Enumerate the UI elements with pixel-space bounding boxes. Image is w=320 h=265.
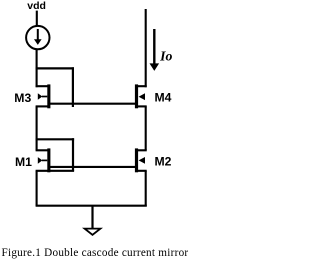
svg-text:vdd: vdd — [27, 0, 46, 12]
transistor M2 drain lead — [138, 149, 147, 151]
ground symbol triangle — [85, 229, 101, 235]
wire current source to M3 drain — [36, 49, 38, 87]
transistor M3 channel bar — [47, 84, 50, 108]
wire M1 diode loop horizontal — [36, 138, 75, 140]
wire Io output top — [145, 9, 147, 87]
transistor M1 gate lead — [42, 159, 47, 161]
transistor M4 drain lead — [138, 85, 147, 87]
transistor M3 gate arrow — [38, 93, 43, 100]
transistor M4 gate arrow — [139, 93, 145, 100]
svg-text:M4: M4 — [155, 91, 172, 105]
transistor M3 drain lead — [36, 85, 48, 87]
svg-text:M3: M3 — [14, 91, 31, 105]
wire M1 diode loop vertical — [72, 138, 74, 171]
svg-text:M2: M2 — [155, 154, 172, 168]
wire M2 source to ground bus — [145, 171, 147, 206]
current source I1 arrow — [37, 29, 39, 40]
wire M4 source to M2 drain — [145, 106, 147, 150]
transistor M4 source lead — [138, 105, 147, 107]
svg-text:Io: Io — [159, 49, 172, 64]
wire M3 diode loop vertical — [72, 67, 74, 107]
Io current arrow — [153, 29, 155, 65]
transistor M2 channel bar — [135, 148, 138, 172]
transistor M1 source lead (extends to loop) — [36, 170, 75, 172]
transistor M2 source lead — [138, 170, 147, 172]
transistor M1 drain lead — [36, 149, 48, 151]
wire M1 source to ground bus — [36, 171, 38, 206]
ground stem — [91, 206, 93, 229]
transistor M1 channel bar — [47, 148, 50, 172]
transistor M3 gate lead — [42, 96, 47, 98]
transistor M1 gate arrow — [38, 157, 43, 164]
gate bus M1-M2 — [48, 166, 138, 168]
wire M3 source to M1 drain — [36, 106, 38, 150]
gate bus M3-M4 — [48, 103, 138, 105]
wire M3 diode loop horizontal — [36, 67, 74, 69]
wire vdd to current source — [36, 11, 38, 26]
svg-text:M1: M1 — [15, 155, 32, 169]
transistor M4 channel bar — [135, 84, 138, 108]
transistor M3 source lead — [36, 105, 48, 107]
transistor M2 gate arrow — [139, 157, 145, 164]
ground bus wire — [36, 205, 147, 207]
current source I1 circle — [26, 26, 49, 49]
svg-text:Figure.1 Double cascode curren: Figure.1 Double cascode current mirror — [2, 247, 189, 259]
